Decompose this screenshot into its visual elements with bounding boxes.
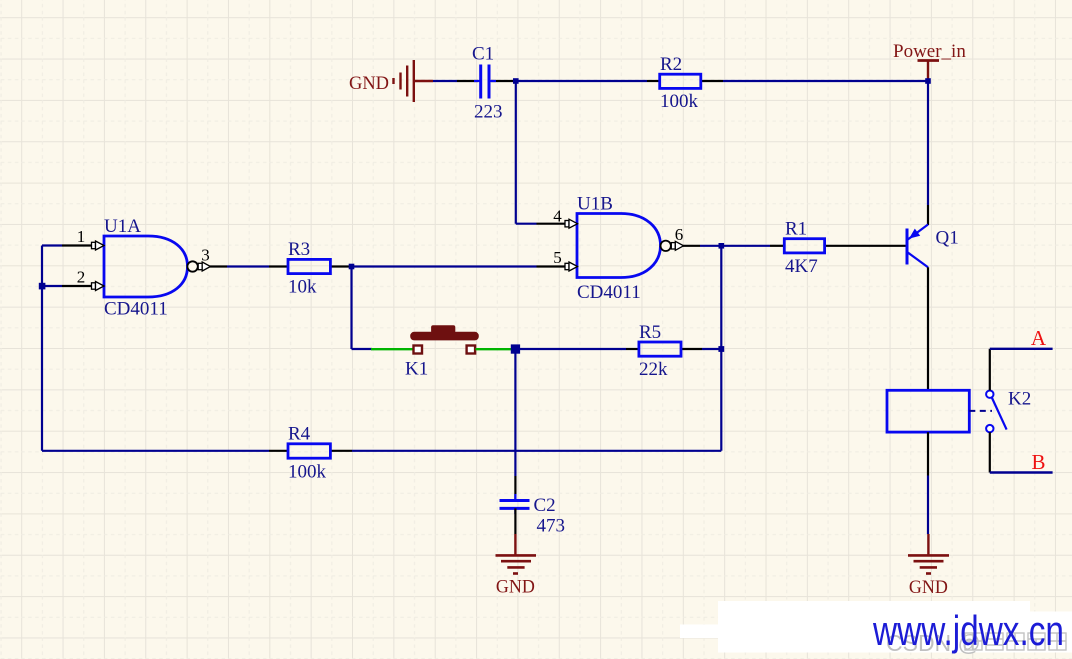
resistor R1: [784, 239, 824, 253]
svg-text:GND: GND: [909, 577, 948, 598]
resistor R1 pins: [770, 245, 785, 247]
watermark white band: [680, 601, 1072, 653]
resistor R5: [639, 342, 681, 356]
svg-text:CD4011: CD4011: [104, 299, 168, 320]
svg-text:A: A: [1031, 326, 1047, 350]
svg-text:10k: 10k: [288, 277, 317, 298]
node junction K1/C2: [511, 344, 520, 353]
wire junction down to K1: [350, 267, 352, 350]
capacitor C2 plates: [500, 499, 530, 502]
wire GND to C1: [433, 80, 457, 82]
resistor R2: [660, 74, 701, 88]
U1B pin 5: [537, 265, 566, 267]
K1 left contact: [414, 346, 423, 354]
power port Power_in: [927, 62, 929, 82]
wire input bus vertical: [41, 246, 43, 451]
resistor R3: [288, 259, 330, 273]
wire R2 to power node: [723, 80, 928, 82]
svg-text:223: 223: [474, 102, 503, 123]
wire R4 row: [42, 450, 269, 452]
wire contact B: [989, 432, 991, 472]
svg-text:6: 6: [675, 225, 684, 244]
wire relay coil to ground: [927, 432, 929, 475]
svg-text:473: 473: [537, 516, 566, 537]
svg-text:www.jdwx.cn: www.jdwx.cn: [872, 607, 1064, 654]
wire R4 to vertical: [352, 450, 721, 452]
ground GND (top-left power ground symbol): [394, 60, 434, 102]
svg-text:R5: R5: [639, 322, 661, 343]
op-amp U1B (NAND gate CD4011): [577, 214, 661, 278]
K2 switch lever: [992, 398, 1007, 430]
svg-text:R2: R2: [660, 54, 682, 75]
resistor R4: [288, 444, 330, 458]
op-amp U1A (NAND gate CD4011): [104, 236, 188, 297]
svg-text:B: B: [1031, 450, 1045, 474]
resistor R5 pins: [626, 348, 640, 350]
svg-text:GND: GND: [349, 73, 389, 94]
svg-text:C2: C2: [534, 495, 556, 516]
resistor R2 pins: [647, 80, 660, 82]
K2 top contact: [986, 391, 993, 398]
svg-text:U1A: U1A: [104, 216, 141, 237]
svg-text:5: 5: [553, 248, 562, 267]
U1A pin 2: [44, 285, 62, 287]
node junction R5/vertical: [718, 346, 724, 352]
U1B pin 6 output: [671, 243, 675, 249]
svg-text:100k: 100k: [288, 461, 327, 482]
wire green right of K1: [476, 348, 514, 350]
K2 actuator dashed link: [969, 410, 992, 412]
wire R3 to U1B pin5: [352, 265, 537, 267]
switch K1 button cap: [410, 332, 479, 341]
svg-text:U1B: U1B: [577, 194, 613, 215]
svg-text:R1: R1: [785, 218, 807, 239]
wire K1 junction down to C2: [514, 349, 516, 476]
wire C1 node down to U1B pin4: [515, 83, 517, 224]
wire Q1 collector down to relay coil: [927, 267, 929, 390]
svg-text:22k: 22k: [639, 359, 668, 380]
U1B pin 4: [537, 223, 566, 225]
U1A pin 3 output: [198, 263, 202, 269]
wire power rail down to Q1 emitter: [927, 83, 929, 205]
node junction pin6/R1: [719, 243, 725, 249]
wire green left of K1: [371, 348, 413, 350]
svg-text:C1: C1: [472, 44, 494, 65]
wire pin6 to junction: [700, 245, 770, 247]
K2 bottom contact: [986, 425, 993, 432]
wire vertical pin6 bus: [720, 246, 722, 451]
svg-text:K1: K1: [405, 359, 428, 380]
ground GND (bottom-right): [908, 534, 949, 574]
transistor Q1 (PNP): [906, 229, 909, 265]
svg-text:4K7: 4K7: [785, 256, 818, 277]
svg-text:R3: R3: [288, 239, 310, 260]
wire C1 to R2: [518, 80, 647, 82]
svg-text:2: 2: [77, 268, 86, 287]
svg-text:GND: GND: [496, 577, 535, 598]
U1A output bubble: [187, 261, 197, 271]
capacitor C1 pins: [457, 80, 478, 82]
capacitor C1 plates: [479, 65, 482, 99]
U1A pin 1: [42, 244, 62, 246]
node junction power rail: [925, 78, 931, 84]
svg-text:CD4011: CD4011: [577, 282, 641, 303]
ground GND (bottom-center): [496, 534, 537, 574]
U1B output bubble: [661, 241, 671, 251]
K1 right contact: [467, 346, 476, 354]
capacitor C2 lower pin: [514, 508, 516, 534]
svg-text:4: 4: [553, 207, 562, 226]
wire R5 to vertical: [702, 348, 721, 350]
resistor R3 pins: [269, 265, 289, 267]
wire R1 to Q1 base: [848, 245, 906, 247]
svg-text:1: 1: [77, 227, 86, 246]
svg-text:R4: R4: [288, 424, 311, 445]
wire contact A: [989, 349, 991, 391]
node junction C1/R2: [513, 78, 519, 84]
svg-text:3: 3: [201, 246, 210, 265]
wire pin3 to R3: [227, 265, 269, 267]
svg-text:Power_in: Power_in: [893, 41, 966, 62]
svg-text:Q1: Q1: [936, 227, 959, 248]
resistor R4 pins: [269, 450, 289, 452]
relay K2 coil: [887, 390, 969, 432]
wire K1 to R5: [515, 348, 626, 350]
node junction R3 output: [349, 264, 355, 270]
node junction pin2: [39, 283, 46, 290]
svg-text:K2: K2: [1008, 389, 1031, 410]
svg-text:100k: 100k: [660, 91, 699, 112]
